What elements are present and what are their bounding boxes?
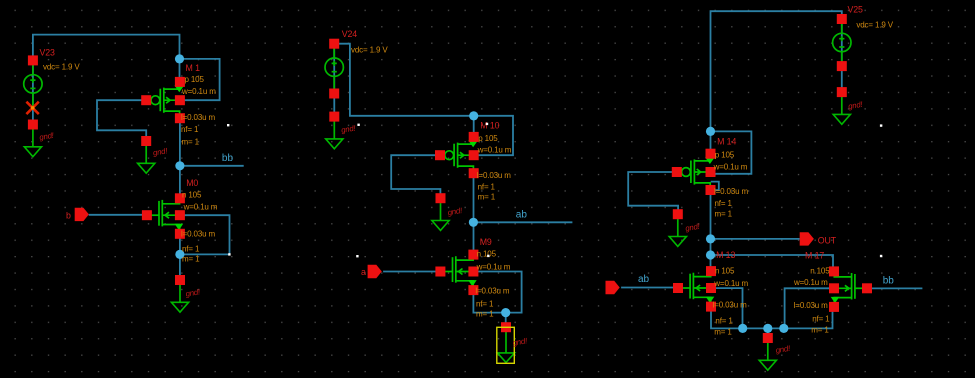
svg-text:l=0.03u m: l=0.03u m — [475, 286, 509, 295]
voltage source V25 — [833, 5, 894, 72]
input pin ab — [606, 281, 620, 294]
wire M10 bulk loop — [474, 116, 513, 155]
svg-text:p 105: p 105 — [478, 134, 498, 143]
svg-text:V25: V25 — [848, 5, 864, 15]
wire bottom rail M13 source to M17 source — [711, 306, 833, 329]
svg-text:vdc= 1.9 V: vdc= 1.9 V — [43, 62, 80, 71]
wire vdd V23 to M1 source — [33, 35, 180, 82]
svg-text:w=0.1u m: w=0.1u m — [181, 87, 216, 96]
svg-text:n 105: n 105 — [477, 250, 497, 259]
wire ground stub bottom rail — [767, 328, 769, 334]
pmos M10 — [435, 120, 512, 201]
svg-text:m= 1: m= 1 — [476, 310, 494, 319]
wire M1 gate to ground — [97, 100, 146, 140]
white artifact dots — [227, 123, 882, 258]
junction M17 bulk on rail — [779, 324, 788, 333]
svg-text:p 105: p 105 — [185, 75, 205, 84]
svg-text:l=0.03u m: l=0.03u m — [181, 230, 215, 239]
voltage source V24 — [325, 29, 388, 99]
error marker X on V23 minus pin — [26, 102, 38, 114]
ground below V24 — [326, 112, 357, 149]
wire M17 bulk loop — [785, 288, 834, 328]
ground at M10 gate — [432, 193, 464, 230]
svg-text:n 105: n 105 — [182, 191, 202, 200]
svg-text:w=0.1u m: w=0.1u m — [713, 163, 748, 172]
pmos M14 — [672, 137, 749, 219]
junction M13 bulk on rail — [738, 324, 747, 333]
wire M14 drain jog — [711, 182, 719, 191]
junction M9 source/bulk — [501, 308, 510, 317]
svg-text:n 105: n 105 — [715, 267, 735, 276]
wire node ab vertical — [473, 173, 475, 254]
wire vdd V25 to M14 source — [711, 11, 842, 153]
svg-text:OUT: OUT — [818, 236, 837, 246]
wire M14 bulk loop — [711, 131, 752, 173]
svg-text:nf= 1: nf= 1 — [478, 183, 496, 192]
svg-text:M 13: M 13 — [716, 250, 735, 260]
wire V24 body — [333, 44, 335, 117]
svg-text:V23: V23 — [40, 47, 56, 57]
svg-text:nf= 1: nf= 1 — [715, 317, 733, 326]
svg-text:nf= 1: nf= 1 — [476, 299, 494, 308]
wire M10 gate to ground — [391, 155, 440, 196]
output pin OUT — [800, 232, 837, 245]
svg-text:l=0.03u m: l=0.03u m — [181, 113, 215, 122]
nmos M9 — [435, 237, 510, 319]
svg-text:l=0.03u m: l=0.03u m — [477, 171, 511, 180]
junction vdd/M14 — [706, 127, 715, 136]
wire M0 source to ground — [179, 234, 181, 280]
wire V23 body — [32, 60, 34, 124]
svg-text:w=0.1u m: w=0.1u m — [183, 203, 218, 212]
svg-text:ab: ab — [516, 209, 528, 220]
wire OUT stub — [711, 238, 800, 240]
svg-text:M 10: M 10 — [480, 120, 499, 130]
wire OUT to M17 drain — [711, 255, 834, 273]
junction M0 source/bulk — [175, 250, 184, 259]
svg-text:M9: M9 — [480, 237, 492, 247]
junction node ab — [469, 218, 478, 227]
junction node OUT — [706, 234, 715, 243]
junction vdd/M10 — [469, 111, 478, 120]
junction M13/M17 drains — [706, 250, 715, 259]
wire M13 bulk loop — [711, 288, 743, 328]
net label bb at M17 gate — [883, 276, 895, 287]
ground below V23 — [24, 120, 55, 157]
svg-text:M 14: M 14 — [717, 137, 736, 147]
voltage source V23 — [24, 47, 81, 107]
junction node bb — [175, 161, 184, 170]
svg-text:w=0.1u m: w=0.1u m — [793, 278, 828, 287]
wire M14 gate to ground — [628, 172, 678, 212]
net label ab at input — [638, 274, 650, 285]
pmos M1 — [141, 63, 216, 147]
wire input b to M0 gate — [89, 214, 147, 216]
junction vdd/M1 — [175, 54, 184, 63]
svg-text:p 105: p 105 — [715, 151, 735, 160]
svg-text:M 17: M 17 — [805, 251, 824, 261]
svg-text:nf= 1: nf= 1 — [812, 314, 830, 323]
wire M14 drain to M13 drain (OUT) — [710, 190, 712, 271]
svg-text:n 105: n 105 — [810, 267, 830, 276]
svg-text:vdc= 1.9 V: vdc= 1.9 V — [351, 46, 388, 55]
net label bb — [222, 153, 234, 164]
wire M0 bulk loop — [180, 215, 230, 254]
wire input ab to M13 gate — [621, 287, 678, 289]
svg-text:m= 1: m= 1 — [715, 210, 733, 219]
svg-text:w=0.1u m: w=0.1u m — [477, 146, 512, 155]
svg-text:nf= 1: nf= 1 — [181, 125, 199, 134]
svg-text:l=0.03u m: l=0.03u m — [713, 301, 747, 310]
svg-text:nf= 1: nf= 1 — [182, 245, 200, 254]
wire node bb stub right — [866, 287, 922, 289]
junction gnd on rail — [763, 324, 772, 333]
ground below rail — [759, 333, 791, 370]
svg-text:l=0.03u m: l=0.03u m — [714, 187, 748, 196]
svg-text:V24: V24 — [342, 29, 358, 39]
svg-text:m= 1: m= 1 — [714, 328, 732, 337]
svg-text:l=0.03u m: l=0.03u m — [794, 301, 828, 310]
svg-text:b: b — [66, 210, 71, 220]
svg-text:vdc= 1.9 V: vdc= 1.9 V — [856, 21, 893, 30]
ground at M14 gate — [669, 209, 701, 246]
svg-text:nf= 1: nf= 1 — [715, 199, 733, 208]
wire V25 body — [841, 19, 843, 92]
svg-text:bb: bb — [222, 153, 234, 164]
wire M9 source to ground node — [473, 290, 505, 325]
svg-text:m= 1: m= 1 — [182, 138, 200, 147]
wire M1 bulk loop — [180, 59, 220, 100]
nmos M17 (mirrored) — [793, 251, 872, 335]
input pin b — [66, 208, 89, 221]
wire node ab stub — [473, 221, 572, 223]
svg-text:m= 1: m= 1 — [478, 193, 496, 202]
wire node bb vertical M1 drain to M0 drain — [179, 118, 181, 198]
ground below M0 — [171, 275, 201, 312]
wire vdd V24 to M10 — [334, 44, 474, 137]
ground below M9 (selected, yellow highlight) — [497, 322, 529, 363]
svg-text:m= 1: m= 1 — [811, 325, 829, 334]
svg-text:M 1: M 1 — [186, 63, 201, 73]
wire node bb stub — [180, 165, 244, 167]
input pin a — [361, 265, 382, 278]
ground at M1 gate — [138, 136, 169, 173]
svg-text:a: a — [361, 267, 366, 277]
wire M9 bulk loop — [473, 272, 521, 313]
svg-text:m= 1: m= 1 — [182, 255, 200, 264]
svg-text:M0: M0 — [186, 178, 198, 188]
nmos M0 — [142, 178, 218, 263]
svg-text:w=0.1u m: w=0.1u m — [476, 262, 511, 271]
svg-text:ab: ab — [638, 274, 650, 285]
svg-text:bb: bb — [883, 276, 895, 287]
nmos M13 — [673, 250, 748, 337]
ground below V25 — [833, 87, 864, 124]
svg-text:w=0.1u m: w=0.1u m — [713, 279, 748, 288]
net label ab — [516, 209, 528, 220]
wire input a to M9 gate — [383, 271, 441, 273]
